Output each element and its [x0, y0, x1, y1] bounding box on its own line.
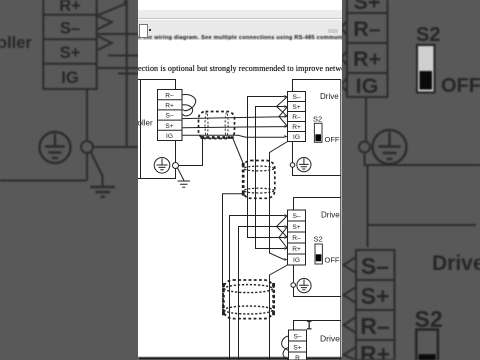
- svg-text:S2: S2: [415, 306, 443, 332]
- shield tube 2 drain end caps: [242, 163, 245, 196]
- schematic svg: [138, 0, 342, 360]
- svg-text:S–: S–: [292, 94, 300, 101]
- bg drive2 terminal block: [356, 250, 395, 360]
- bus wire B drive1 S+ to drive2 R+: [256, 107, 285, 249]
- drive2 PE symbol: [297, 279, 311, 293]
- drive1 row arrowheads: [284, 95, 287, 138]
- toolbar field: [139, 24, 148, 38]
- bg drive2 row arrowheads: [344, 257, 357, 360]
- shield tube 2 inner ellipse top: [244, 166, 274, 171]
- bg wire 1: [98, 33, 138, 35]
- earth ground wire: [178, 168, 185, 181]
- svg-text:IG: IG: [293, 257, 300, 264]
- bg node wire down to box bottom: [86, 153, 88, 181]
- svg-text:S–: S–: [361, 253, 389, 279]
- earth ground symbol: [178, 181, 191, 187]
- svg-text:S–: S–: [60, 20, 80, 38]
- svg-text:R+: R+: [292, 246, 301, 253]
- svg-text:S–: S–: [292, 213, 300, 220]
- shield tube 2 inner ellipse bottom: [244, 188, 274, 193]
- svg-text:S+: S+: [293, 345, 301, 352]
- drive2 chevron jumper S-/R-: [277, 216, 288, 238]
- twist loop 2: [182, 105, 193, 116]
- twist loop 1: [182, 95, 196, 111]
- svg-text:R+: R+: [353, 47, 381, 71]
- svg-text:S2: S2: [314, 235, 323, 244]
- svg-text:R–: R–: [353, 17, 381, 41]
- svg-text:OFF: OFF: [325, 135, 340, 144]
- bg earth wire: [91, 153, 103, 187]
- right background panel (darkened blow-up of drive area): [342, 0, 480, 360]
- svg-text:S–: S–: [165, 113, 173, 120]
- svg-text:R+: R+: [59, 0, 81, 15]
- svg-text:S+: S+: [292, 224, 300, 231]
- svg-text:R–: R–: [292, 114, 301, 121]
- bottom dark bar: [138, 357, 342, 360]
- sentence line: [138, 64, 342, 75]
- svg-text:R–: R–: [360, 313, 390, 339]
- wire controller S+ to drive1 R+: [182, 127, 284, 128]
- bus wire A drive1 S- to drive2 R-: [248, 97, 285, 238]
- svg-text:oller: oller: [138, 119, 153, 128]
- bg drive1 terminal block: [347, 0, 388, 98]
- drive3 brace jumper 2: [283, 348, 288, 360]
- svg-text:S+: S+: [361, 283, 390, 309]
- svg-text:S–: S–: [293, 334, 301, 341]
- drive1 terminal block: [288, 92, 306, 142]
- drive2 terminal block: [288, 210, 306, 265]
- shield tube 3 inner ellipse top: [225, 285, 273, 293]
- shield tube 3 outline: [223, 280, 274, 319]
- svg-text:R+: R+: [360, 341, 390, 360]
- svg-text:S+: S+: [292, 104, 300, 111]
- toolbar band: [138, 10, 342, 19]
- drive3 brace jumper 1: [282, 336, 289, 351]
- controller terminal block: [158, 90, 183, 141]
- svg-text:R: R: [295, 355, 300, 360]
- svg-text:S2: S2: [313, 114, 322, 123]
- bg node wire right: [93, 146, 138, 148]
- shield tube 3 drain edge left: [222, 285, 225, 315]
- drive1 PE symbol: [297, 158, 311, 172]
- drain wire tube2 to tube3: [223, 194, 244, 284]
- bg drive1 row arrowheads: [341, 21, 347, 92]
- svg-text:IG: IG: [293, 134, 300, 141]
- PE chain drive2 to drive3: [294, 287, 341, 331]
- svg-text:R–: R–: [165, 92, 174, 99]
- svg-text:Drive: Drive: [321, 211, 340, 220]
- bg IG wire down: [86, 89, 88, 141]
- svg-text:IG: IG: [356, 74, 379, 98]
- shield tube 1 inner ellipse right: [225, 112, 228, 137]
- chain wire drive2 S+ down: [239, 227, 285, 360]
- svg-text:IG: IG: [166, 133, 173, 140]
- central white document strip: [138, 0, 342, 360]
- svg-text:oller: oller: [0, 34, 32, 52]
- bg wire 4: [118, 73, 138, 75]
- bg twist chevron 1: [98, 16, 112, 29]
- shield tube 1 drain edge: [202, 136, 233, 139]
- bg drive2 S2 switch: [416, 330, 438, 360]
- text cursor: [307, 321, 312, 329]
- bg controller terminal block: [43, 0, 96, 89]
- bg earth ground symbol: [91, 187, 116, 197]
- controller PE symbol: [154, 158, 170, 174]
- left background panel (darkened blow-up of controller area): [0, 0, 138, 360]
- drive1 PE node: [290, 163, 295, 168]
- shield tube 3 inner ellipse bottom: [225, 306, 273, 314]
- wire controller IG to drive1 IG: [182, 135, 284, 137]
- bg drive1 IG wire down: [365, 97, 367, 141]
- bg chain wire 2: [368, 165, 477, 247]
- bg twist chevron 2: [98, 36, 112, 50]
- toolbar dot: [149, 29, 151, 31]
- bg box bottom edge: [0, 180, 87, 182]
- drive2 S2 switch: [315, 244, 322, 264]
- bg wire to top corner: [98, 0, 125, 15]
- svg-text:R+: R+: [292, 124, 301, 131]
- svg-text:Drive: Drive: [320, 334, 340, 344]
- shield tube 1 outline: [199, 112, 235, 139]
- bg drive1 PE symbol: [373, 130, 407, 164]
- bg wire 2: [108, 55, 138, 57]
- svg-text:S+: S+: [354, 0, 381, 14]
- drain wire tube1 to tube2: [233, 138, 244, 164]
- PE chain from top into drive1: [293, 80, 341, 360]
- toolbar right mark: [328, 29, 338, 33]
- clipped blurry text row: [136, 35, 344, 42]
- bg PE chain wire: [365, 153, 480, 166]
- PE chain drive1 to drive2: [293, 167, 341, 282]
- shield tube 1 drain end caps: [201, 136, 234, 139]
- shield tube 1 inner ellipse left: [205, 112, 208, 137]
- svg-text:IG: IG: [61, 69, 78, 87]
- svg-text:Drive: Drive: [320, 92, 339, 101]
- drive3 terminal block: [289, 330, 307, 360]
- svg-text:S+: S+: [60, 44, 81, 62]
- svg-text:S2: S2: [416, 24, 440, 46]
- drive2 chevron jumper S+/R+: [279, 227, 288, 249]
- bg PE node: [81, 141, 93, 153]
- svg-text:R+: R+: [165, 103, 174, 110]
- shield tube 3 drain end caps: [222, 283, 275, 315]
- drive1 chevron jumper S-/R-: [277, 97, 288, 117]
- shield tube 3 drain edge right: [272, 285, 275, 315]
- bg box right edge wire: [126, 0, 128, 146]
- drain wire controller node to tube1: [179, 139, 203, 166]
- controller PE node: [173, 163, 179, 169]
- shield tube 2 outline: [243, 161, 275, 199]
- drive2 PE node: [291, 283, 296, 288]
- chain wire drive2 S- down: [230, 216, 285, 360]
- IG chain drive2 down: [270, 265, 288, 360]
- svg-text:R–: R–: [292, 235, 301, 242]
- controller box: [137, 80, 176, 179]
- wire controller S- to drive1 R-: [182, 117, 284, 119]
- bg PE symbol: [40, 132, 71, 163]
- bg drive1 PE node: [359, 142, 370, 153]
- drive1 chevron jumper S+/R+: [279, 107, 288, 127]
- drive1 S2 switch: [314, 123, 322, 142]
- svg-text:S+: S+: [165, 123, 173, 130]
- IG chain drive1 to drive2: [270, 142, 288, 260]
- svg-text:OFF: OFF: [325, 256, 340, 265]
- bg wire 3: [98, 67, 138, 69]
- shield tube 2 drain edge: [242, 165, 245, 195]
- svg-text:Drive: Drive: [432, 252, 480, 275]
- drive2 row arrowheads: [284, 214, 287, 261]
- svg-text:OFF: OFF: [441, 75, 480, 97]
- bg drive1 S2 switch: [417, 45, 435, 93]
